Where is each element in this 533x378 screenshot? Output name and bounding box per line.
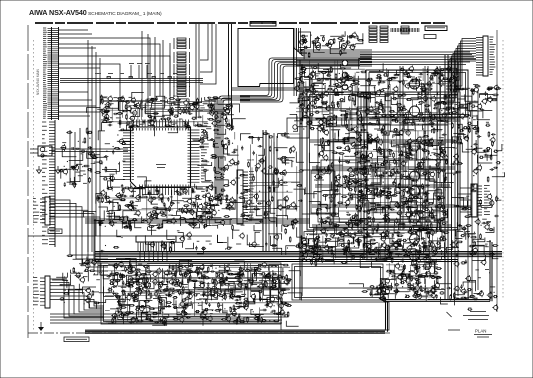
label (83, 173, 86, 175)
capacitor (186, 125, 188, 130)
wire (417, 205, 430, 209)
junction (415, 231, 416, 232)
capacitor (428, 171, 433, 173)
resistor (428, 233, 430, 239)
label (200, 110, 203, 112)
resistor (415, 295, 421, 297)
capacitor (420, 195, 422, 200)
bus wire (445, 55, 452, 300)
resistor (104, 110, 110, 112)
transistor (101, 109, 105, 113)
junction (401, 273, 402, 274)
resistor (207, 104, 213, 106)
resistor (322, 195, 328, 197)
capacitor (424, 288, 426, 293)
capacitor (440, 235, 445, 237)
resistor (367, 141, 373, 143)
label (369, 226, 373, 228)
capacitor (321, 99, 323, 104)
connector CN201 pins (476, 38, 483, 76)
diode (401, 94, 406, 96)
capacitor (232, 125, 234, 130)
bus wire (360, 52, 476, 65)
wire (431, 96, 433, 125)
wire (410, 254, 416, 259)
wire (318, 204, 327, 212)
wire (414, 193, 428, 201)
bus wire (310, 140, 455, 142)
wire (429, 78, 431, 107)
label (407, 289, 411, 291)
wire (424, 227, 436, 233)
transistor (324, 91, 328, 95)
capacitor (360, 138, 362, 143)
capacitor (300, 49, 302, 54)
resistor (431, 286, 437, 288)
diode (299, 72, 304, 74)
resistor (440, 225, 442, 231)
wire (357, 86, 366, 97)
wire (400, 208, 410, 217)
diode (430, 216, 435, 218)
wire (317, 242, 327, 246)
resistor (337, 202, 343, 204)
wire (431, 168, 438, 178)
wire (376, 91, 456, 93)
resistor (425, 191, 427, 197)
wire (369, 247, 375, 254)
capacitor (357, 134, 362, 136)
label (429, 77, 433, 79)
diode (402, 202, 407, 204)
capacitor (324, 220, 329, 222)
wire (147, 99, 153, 103)
resistor (428, 202, 434, 204)
resistor (431, 122, 433, 128)
diode (433, 272, 438, 274)
capacitor (112, 150, 114, 155)
label (403, 171, 408, 173)
label (438, 143, 441, 145)
label (304, 87, 307, 89)
wire (345, 232, 350, 236)
resistor (430, 262, 432, 268)
diode (339, 99, 344, 101)
wire (200, 24, 208, 60)
wire (445, 102, 460, 111)
resistor (83, 165, 89, 167)
diode (346, 41, 351, 43)
junction (395, 131, 396, 132)
label (384, 224, 388, 226)
junction (349, 160, 350, 161)
wire (30, 148, 38, 150)
wire (314, 83, 323, 94)
resistor (349, 36, 355, 38)
resistor (333, 114, 335, 120)
resistor (358, 39, 364, 41)
resistor (416, 212, 422, 214)
transistor (342, 79, 346, 83)
transistor (381, 296, 385, 300)
transistor (335, 182, 339, 186)
diode (318, 177, 323, 179)
resistor (383, 286, 389, 288)
label (126, 106, 129, 108)
capacitor (334, 213, 339, 215)
diode (385, 197, 390, 199)
label (388, 164, 391, 166)
transistor (360, 199, 364, 203)
wire (430, 235, 444, 241)
label (387, 271, 390, 273)
resistor (104, 119, 110, 121)
resistor (90, 156, 96, 158)
transistor (127, 107, 131, 111)
transistor (415, 168, 419, 172)
wire (407, 78, 419, 85)
junction (406, 112, 407, 113)
wire (425, 84, 432, 95)
wire (397, 70, 412, 75)
label (322, 45, 327, 47)
bus wire (240, 61, 372, 98)
label (172, 124, 175, 126)
label (439, 144, 444, 146)
junction (431, 78, 432, 79)
transistor (303, 108, 307, 112)
capacitor (375, 101, 380, 103)
transistor (342, 84, 348, 90)
capacitor (390, 208, 395, 210)
wire (313, 254, 321, 258)
resistor (370, 239, 376, 241)
wire (426, 175, 436, 181)
wire (420, 228, 432, 232)
wire (330, 241, 335, 251)
wire (360, 189, 375, 199)
label (353, 169, 357, 171)
resistor (379, 76, 381, 82)
IC U601 inner left pins (132, 130, 135, 179)
wire (95, 157, 107, 160)
wire (404, 201, 414, 212)
wire (364, 98, 375, 108)
label (113, 97, 117, 99)
diode (328, 222, 333, 224)
diode (419, 113, 424, 115)
resistor (153, 113, 159, 115)
wire (365, 108, 384, 110)
capacitor (427, 158, 432, 160)
resistor (354, 100, 356, 106)
resistor (398, 106, 400, 112)
capacitor (72, 166, 74, 171)
resistor (148, 101, 154, 103)
wire (87, 151, 97, 159)
wire (377, 105, 379, 127)
wire (321, 78, 331, 86)
resistor (425, 232, 431, 234)
capacitor (354, 181, 359, 183)
wire (415, 232, 420, 237)
resistor (348, 177, 350, 183)
wire (95, 52, 97, 236)
label (309, 252, 314, 254)
label (373, 195, 378, 197)
resistor (338, 240, 344, 242)
wire (444, 68, 457, 75)
wire (409, 201, 416, 205)
resistor (370, 208, 376, 210)
resistor (358, 241, 360, 247)
resistor (453, 71, 455, 77)
wire (385, 196, 391, 202)
resistor (347, 198, 353, 200)
resistor (316, 208, 322, 210)
wire (420, 82, 422, 119)
resistor (325, 239, 331, 241)
label (227, 165, 232, 167)
transistor (422, 141, 426, 145)
wire (87, 108, 101, 113)
diode (402, 239, 407, 241)
resistor (361, 146, 367, 148)
right outer border wire (502, 40, 504, 300)
wire (184, 121, 186, 127)
junction (322, 128, 323, 129)
transistor (423, 96, 427, 100)
capacitor (318, 153, 320, 158)
wire (433, 73, 443, 81)
junction (388, 213, 389, 214)
wire (106, 162, 119, 172)
capacitor (427, 108, 429, 113)
diode (380, 164, 385, 166)
capacitor (104, 117, 109, 119)
resistor (422, 173, 428, 175)
label (419, 85, 422, 87)
diode (408, 231, 413, 233)
bus wire (232, 88, 310, 90)
wire (356, 194, 368, 200)
label (326, 91, 329, 93)
resistor (341, 262, 347, 264)
capacitor (300, 81, 305, 83)
wire (368, 73, 370, 102)
junction (111, 117, 112, 118)
label box (424, 35, 436, 39)
wire (415, 186, 423, 195)
diode (370, 191, 375, 193)
wire (142, 31, 178, 117)
wire (403, 177, 410, 186)
transistor (230, 160, 234, 164)
resistor (133, 125, 139, 127)
wire (409, 208, 417, 214)
transistor (406, 131, 410, 135)
capacitor (338, 158, 340, 163)
diode (203, 133, 208, 135)
wire (294, 111, 303, 121)
transistor (390, 170, 394, 174)
resistor (346, 123, 348, 129)
label (332, 92, 335, 94)
transistor (418, 162, 422, 166)
transistor (388, 252, 392, 256)
transistor (350, 45, 354, 49)
bus wire (312, 167, 455, 169)
label (427, 216, 430, 218)
capacitor (188, 113, 193, 115)
svg-text:PLAN: PLAN (475, 329, 486, 334)
wire (392, 141, 396, 147)
transistor (319, 120, 323, 124)
junction (323, 84, 324, 85)
resistor (395, 192, 401, 194)
capacitor (368, 137, 370, 142)
label (381, 192, 386, 194)
wire (459, 104, 467, 107)
resistor (350, 94, 356, 96)
label (430, 295, 433, 297)
transistor (320, 94, 324, 98)
wire (312, 115, 325, 125)
transistor (119, 139, 123, 143)
connector CN202 pins (391, 28, 419, 32)
wire (380, 188, 395, 195)
wire (192, 137, 201, 140)
transistor (439, 76, 443, 80)
resistor (423, 116, 425, 122)
label (382, 88, 387, 90)
wire (392, 246, 403, 250)
resistor (449, 107, 455, 109)
label (344, 155, 349, 157)
label (386, 231, 390, 233)
transistor (375, 138, 379, 142)
resistor (378, 249, 380, 255)
diode (202, 130, 207, 132)
junction (425, 193, 426, 194)
resistor (377, 119, 379, 125)
label (410, 277, 415, 279)
label (305, 248, 310, 250)
label (425, 219, 430, 221)
wire (69, 154, 83, 161)
wire (118, 118, 133, 123)
label (311, 105, 315, 107)
diode (421, 158, 426, 160)
wire (361, 93, 371, 103)
diode (423, 143, 428, 145)
resistor (401, 150, 403, 156)
resistor (393, 290, 399, 292)
capacitor (104, 155, 109, 157)
label (371, 85, 376, 87)
resistor (305, 260, 311, 262)
transistor (409, 198, 413, 202)
diode (309, 114, 314, 116)
resistor (389, 270, 395, 272)
wire (368, 231, 382, 237)
label (225, 123, 228, 125)
capacitor (224, 137, 229, 139)
wire (196, 24, 199, 118)
transistor (178, 109, 182, 113)
wire (360, 153, 364, 164)
label (428, 89, 432, 91)
wire (337, 96, 345, 102)
label (406, 211, 410, 213)
resistor (104, 110, 110, 112)
wire (343, 237, 354, 243)
label (333, 79, 337, 81)
label (341, 52, 346, 54)
resistor (442, 78, 448, 80)
resistor (355, 186, 357, 192)
wire (360, 257, 369, 268)
wire (314, 46, 325, 53)
resistor (398, 183, 400, 189)
resistor (117, 98, 123, 100)
junction (398, 207, 399, 208)
label (164, 101, 167, 103)
resistor (86, 128, 88, 134)
label (393, 132, 398, 134)
transistor (430, 243, 434, 247)
diode (400, 282, 405, 284)
capacitor (107, 104, 112, 106)
wire (402, 151, 407, 162)
transistor (150, 121, 154, 125)
junction (425, 286, 426, 287)
bus wire (310, 118, 460, 120)
diode (366, 79, 371, 81)
wire (422, 229, 427, 239)
diode (399, 206, 404, 208)
resistor (336, 86, 342, 88)
resistor (402, 270, 404, 276)
capacitor (424, 275, 429, 277)
transistor (356, 111, 360, 115)
resistor (349, 175, 355, 177)
label (213, 119, 217, 121)
wire (335, 130, 350, 141)
label (179, 118, 183, 120)
diode (313, 67, 318, 69)
wire (145, 103, 158, 113)
junction (437, 231, 438, 232)
label (364, 179, 369, 181)
transistor (368, 222, 372, 226)
wire (148, 126, 154, 137)
wire (418, 277, 425, 284)
transistor (405, 188, 409, 192)
label (440, 247, 444, 249)
wire (202, 115, 204, 126)
wire (300, 49, 304, 59)
transistor (304, 253, 308, 257)
resistor (438, 195, 440, 201)
resistor (380, 190, 386, 192)
resistor (175, 99, 181, 101)
IF block box (299, 32, 311, 48)
label (367, 108, 370, 110)
label (431, 152, 435, 154)
wire (331, 70, 342, 80)
resistor (356, 215, 358, 221)
